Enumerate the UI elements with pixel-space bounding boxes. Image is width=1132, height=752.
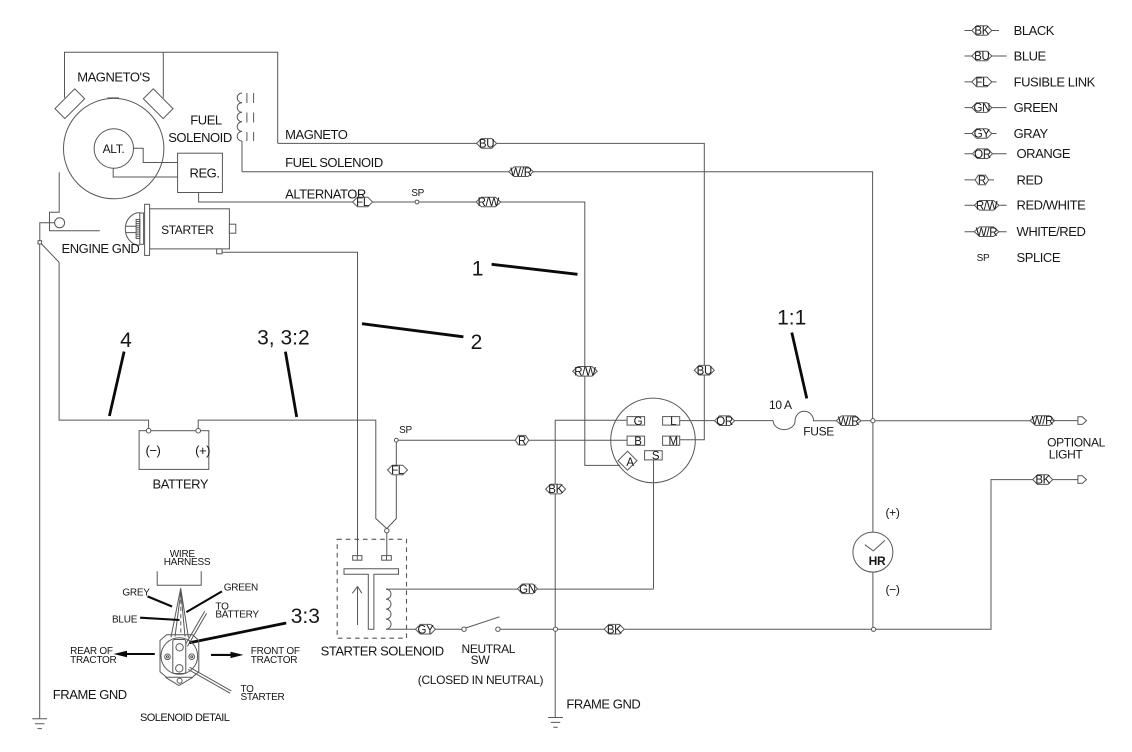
legend row R/W RED/WHITE	[965, 198, 1087, 213]
battery box	[139, 431, 209, 470]
solenoid inner frame	[173, 640, 186, 674]
svg-text:(+): (+)	[886, 506, 900, 520]
neutral switch contact left	[462, 627, 466, 631]
wire ring to gnd junction	[40, 223, 55, 241]
junction neutral gnd node	[553, 627, 557, 631]
svg-text:FUEL: FUEL	[190, 113, 222, 128]
svg-text:FRAME GND: FRAME GND	[53, 687, 127, 702]
starter body	[150, 209, 230, 249]
terminal S	[645, 451, 663, 460]
wire BK to optional light return	[876, 480, 1033, 630]
legend row SP SPLICE	[977, 250, 1061, 265]
svg-text:STARTER: STARTER	[241, 692, 285, 703]
wire label BU vertical	[694, 365, 714, 375]
wire label R/W vertical	[573, 367, 598, 377]
svg-text:R/W: R/W	[976, 200, 998, 212]
svg-text:2: 2	[471, 331, 483, 354]
svg-text:SW: SW	[471, 653, 491, 667]
wire label BU	[477, 139, 497, 149]
svg-text:STARTER SOLENOID: STARTER SOLENOID	[321, 643, 444, 658]
svg-text:RED: RED	[1017, 172, 1043, 187]
svg-text:BU: BU	[974, 51, 989, 63]
wire GN coil to S terminal	[386, 588, 654, 590]
legend row FL FUSIBLE LINK	[965, 74, 1096, 89]
svg-text:G: G	[634, 416, 643, 428]
solenoid plunger arrow	[352, 586, 362, 625]
svg-text:OR: OR	[716, 416, 733, 428]
svg-text:GN: GN	[973, 103, 990, 115]
wire FUEL SOLENOID (W/R)	[242, 172, 873, 421]
svg-text:ENGINE GND: ENGINE GND	[62, 241, 140, 256]
wire magneto top loop	[65, 52, 278, 143]
splice SP row3	[415, 200, 419, 204]
svg-text:GN: GN	[519, 584, 536, 596]
wire ALTERNATOR (R/W)	[199, 193, 620, 466]
starter bottom terminal	[217, 249, 222, 254]
svg-text:FL: FL	[391, 465, 405, 477]
solenoid bottom tab	[165, 677, 192, 685]
regulator REG.	[178, 153, 223, 192]
svg-text:FUSIBLE LINK: FUSIBLE LINK	[1014, 74, 1096, 89]
wire battery positive	[198, 420, 387, 528]
ground symbol frame gnd mid	[548, 718, 563, 728]
harness wire bundle	[171, 588, 189, 637]
svg-text:(−): (−)	[886, 583, 900, 597]
battery terminal positive	[196, 428, 201, 433]
svg-text:BLACK: BLACK	[1014, 23, 1055, 38]
starter solenoid box dashed	[337, 539, 406, 638]
legend row BU BLUE	[965, 49, 1047, 64]
svg-text:BLUE: BLUE	[112, 614, 138, 625]
terminal B	[627, 436, 645, 445]
wire label W/R right	[1030, 416, 1055, 426]
svg-text:SOLENOID: SOLENOID	[168, 130, 232, 145]
starter shaft lines	[126, 226, 136, 232]
magneto left	[55, 89, 85, 119]
leader blue	[140, 618, 179, 620]
wire R splice to switch B	[398, 439, 627, 441]
svg-text:BATTERY: BATTERY	[152, 477, 208, 492]
svg-text:1:1: 1:1	[777, 307, 806, 330]
wire GY coil to switch	[386, 628, 462, 630]
svg-text:BATTERY: BATTERY	[215, 610, 259, 621]
svg-text:FUSE: FUSE	[803, 424, 834, 438]
wire L terminal to fuse	[680, 420, 774, 422]
terminal G	[627, 417, 645, 426]
fuel solenoid core dashes	[247, 93, 254, 141]
svg-text:WHITE/RED: WHITE/RED	[1017, 224, 1086, 239]
wire label BK mid	[604, 624, 624, 634]
svg-text:A: A	[626, 457, 634, 469]
svg-text:SOLENOID DETAIL: SOLENOID DETAIL	[140, 712, 230, 724]
solenoid contact T-bar	[344, 569, 399, 629]
wire label R	[515, 435, 529, 445]
svg-text:ALTERNATOR: ALTERNATOR	[285, 186, 366, 201]
connector arrow BK	[1053, 479, 1078, 481]
svg-text:3, 3:2: 3, 3:2	[257, 327, 310, 350]
svg-text:HR: HR	[869, 554, 886, 568]
flywheel keyway notch	[108, 97, 120, 99]
svg-text:4: 4	[120, 329, 132, 352]
svg-text:BK: BK	[1035, 475, 1050, 487]
svg-text:R: R	[518, 435, 526, 447]
starter flange	[145, 204, 150, 255]
svg-text:W/R: W/R	[1032, 416, 1053, 428]
wire MAGNETO (BU)	[278, 143, 705, 439]
battery terminal negative	[146, 428, 151, 433]
harness bracket	[157, 571, 201, 585]
starter end cap	[125, 213, 140, 246]
fuse element 10 A	[773, 411, 836, 429]
solenoid terminal to battery	[176, 644, 183, 651]
svg-text:SP: SP	[411, 188, 424, 199]
junction solenoid feed	[385, 529, 389, 533]
splice SP mid	[394, 438, 398, 442]
svg-text:L: L	[670, 416, 677, 428]
neutral switch contact right	[496, 627, 500, 631]
wire label FL vertical	[388, 465, 408, 475]
magneto right	[143, 89, 173, 119]
svg-text:ALT.: ALT.	[103, 142, 125, 156]
junction square engine gnd	[38, 241, 42, 244]
wire label GN	[518, 584, 538, 594]
wire gnd junction to frame gnd	[39, 244, 41, 719]
engine gnd ring terminal	[55, 218, 65, 228]
svg-text:STARTER: STARTER	[161, 223, 214, 237]
legend row GY GRAY	[965, 126, 1049, 141]
svg-text:BLUE: BLUE	[1014, 49, 1047, 64]
junction W/R node	[871, 419, 875, 423]
svg-text:BU: BU	[479, 139, 494, 151]
svg-text:BK: BK	[607, 624, 622, 636]
solenoid mount hole right	[189, 654, 195, 660]
wire label BK vertical	[546, 484, 566, 494]
wire G terminal to BK drop	[555, 420, 627, 717]
svg-text:(+): (+)	[195, 443, 210, 458]
svg-text:HARNESS: HARNESS	[164, 557, 211, 568]
solenoid mount hole left	[165, 654, 171, 660]
svg-text:M: M	[669, 436, 678, 448]
wire label BK right	[1033, 475, 1053, 485]
solenoid terminal left	[353, 556, 362, 561]
starter right tab	[229, 224, 235, 233]
legend row GN GREEN	[965, 100, 1058, 115]
open wire to battery	[186, 611, 207, 646]
svg-text:GREEN: GREEN	[224, 583, 258, 594]
leader 3:3	[189, 623, 286, 643]
svg-text:R: R	[978, 175, 986, 187]
engine gnd bracket	[50, 172, 100, 231]
wire S terminal down	[653, 460, 655, 589]
terminal M	[663, 436, 680, 445]
svg-text:RED/WHITE: RED/WHITE	[1017, 198, 1087, 213]
svg-text:REG.: REG.	[190, 166, 220, 181]
legend row R RED	[965, 172, 1043, 187]
svg-text:TRACTOR: TRACTOR	[70, 655, 116, 666]
svg-text:1: 1	[472, 258, 484, 281]
svg-text:S: S	[652, 450, 660, 462]
svg-text:FL: FL	[356, 197, 370, 209]
solenoid terminal to starter	[176, 665, 183, 672]
junction BK node	[871, 627, 875, 631]
connector arrow W/R	[1052, 420, 1078, 422]
ignition switch circle	[611, 398, 696, 483]
svg-text:BU: BU	[697, 365, 712, 377]
starter brush pack	[136, 219, 140, 238]
wire ALT to REG upper	[134, 148, 178, 162]
wire label OR	[715, 416, 735, 426]
hour meter HR	[853, 532, 893, 572]
svg-text:SPLICE: SPLICE	[1017, 250, 1061, 265]
wire starter cable	[222, 252, 358, 555]
svg-text:TRACTOR: TRACTOR	[251, 655, 297, 666]
legend row W/R WHITE/RED	[965, 224, 1086, 239]
svg-text:BK: BK	[548, 484, 563, 496]
wire switch to BK node	[500, 628, 871, 630]
wire hour meter to BK node	[872, 572, 874, 629]
svg-text:GY: GY	[417, 624, 434, 636]
terminal A diamond	[618, 451, 637, 470]
svg-text:(−): (−)	[145, 443, 160, 458]
solenoid coil	[386, 589, 391, 629]
flywheel	[63, 98, 163, 198]
svg-text:R/W: R/W	[478, 197, 500, 209]
svg-text:GY: GY	[974, 129, 991, 141]
wire label R/W row3	[476, 197, 501, 207]
wire label W/R row2	[509, 167, 534, 177]
svg-text:MAGNETO'S: MAGNETO'S	[77, 70, 150, 85]
svg-text:GRAY: GRAY	[1014, 126, 1049, 141]
svg-text:FRAME GND: FRAME GND	[566, 696, 640, 711]
neutral switch blade	[466, 617, 500, 628]
svg-text:R/W: R/W	[574, 366, 596, 378]
wire junction to solenoid terminal	[386, 533, 388, 556]
wire FL splice down	[387, 442, 397, 528]
solenoid terminal right	[382, 556, 392, 561]
svg-text:LIGHT: LIGHT	[1049, 448, 1084, 462]
svg-text:GREEN: GREEN	[1014, 100, 1058, 115]
svg-text:3:3: 3:3	[291, 605, 320, 628]
svg-text:10 A: 10 A	[769, 398, 792, 412]
svg-text:SP: SP	[977, 253, 990, 264]
wire fuse junction to hour meter	[872, 423, 874, 532]
svg-text:W/R: W/R	[976, 227, 997, 239]
arrow front of tractor	[211, 654, 236, 656]
fuel solenoid coil	[237, 93, 242, 141]
svg-text:W/R: W/R	[510, 167, 531, 179]
terminal L	[663, 417, 680, 426]
wire fuse to optional light	[861, 420, 1033, 422]
svg-text:FUEL SOLENOID: FUEL SOLENOID	[285, 155, 383, 170]
wire label FL row3	[353, 197, 373, 207]
svg-text:BK: BK	[974, 26, 989, 38]
svg-text:(CLOSED IN NEUTRAL): (CLOSED IN NEUTRAL)	[418, 673, 544, 687]
solenoid body outline	[160, 635, 199, 678]
leader green	[186, 591, 222, 612]
wire coil to fuel solenoid row	[241, 141, 243, 172]
wire label GY	[416, 624, 436, 634]
solenoid body boss circle	[161, 638, 198, 675]
legend row BK BLACK	[965, 23, 1055, 38]
svg-text:B: B	[634, 436, 642, 448]
alternator ALT.	[94, 129, 133, 168]
wire ALT to REG lower	[113, 168, 177, 177]
svg-text:ORANGE: ORANGE	[1017, 146, 1071, 161]
svg-text:MAGNETO: MAGNETO	[285, 127, 348, 142]
svg-text:OR: OR	[974, 149, 991, 161]
wire gnd junction to battery negative	[42, 244, 149, 430]
svg-text:SP: SP	[399, 425, 412, 436]
svg-text:GREY: GREY	[122, 588, 150, 599]
legend row OR ORANGE	[965, 146, 1071, 161]
wire label W/R at fuse	[836, 416, 861, 426]
svg-text:FL: FL	[975, 77, 989, 89]
open wire to starter	[188, 667, 231, 693]
svg-text:W/R: W/R	[838, 416, 859, 428]
arrow rear of tractor	[123, 653, 155, 655]
ground symbol frame gnd left	[32, 719, 47, 729]
leader grey	[148, 596, 173, 606]
